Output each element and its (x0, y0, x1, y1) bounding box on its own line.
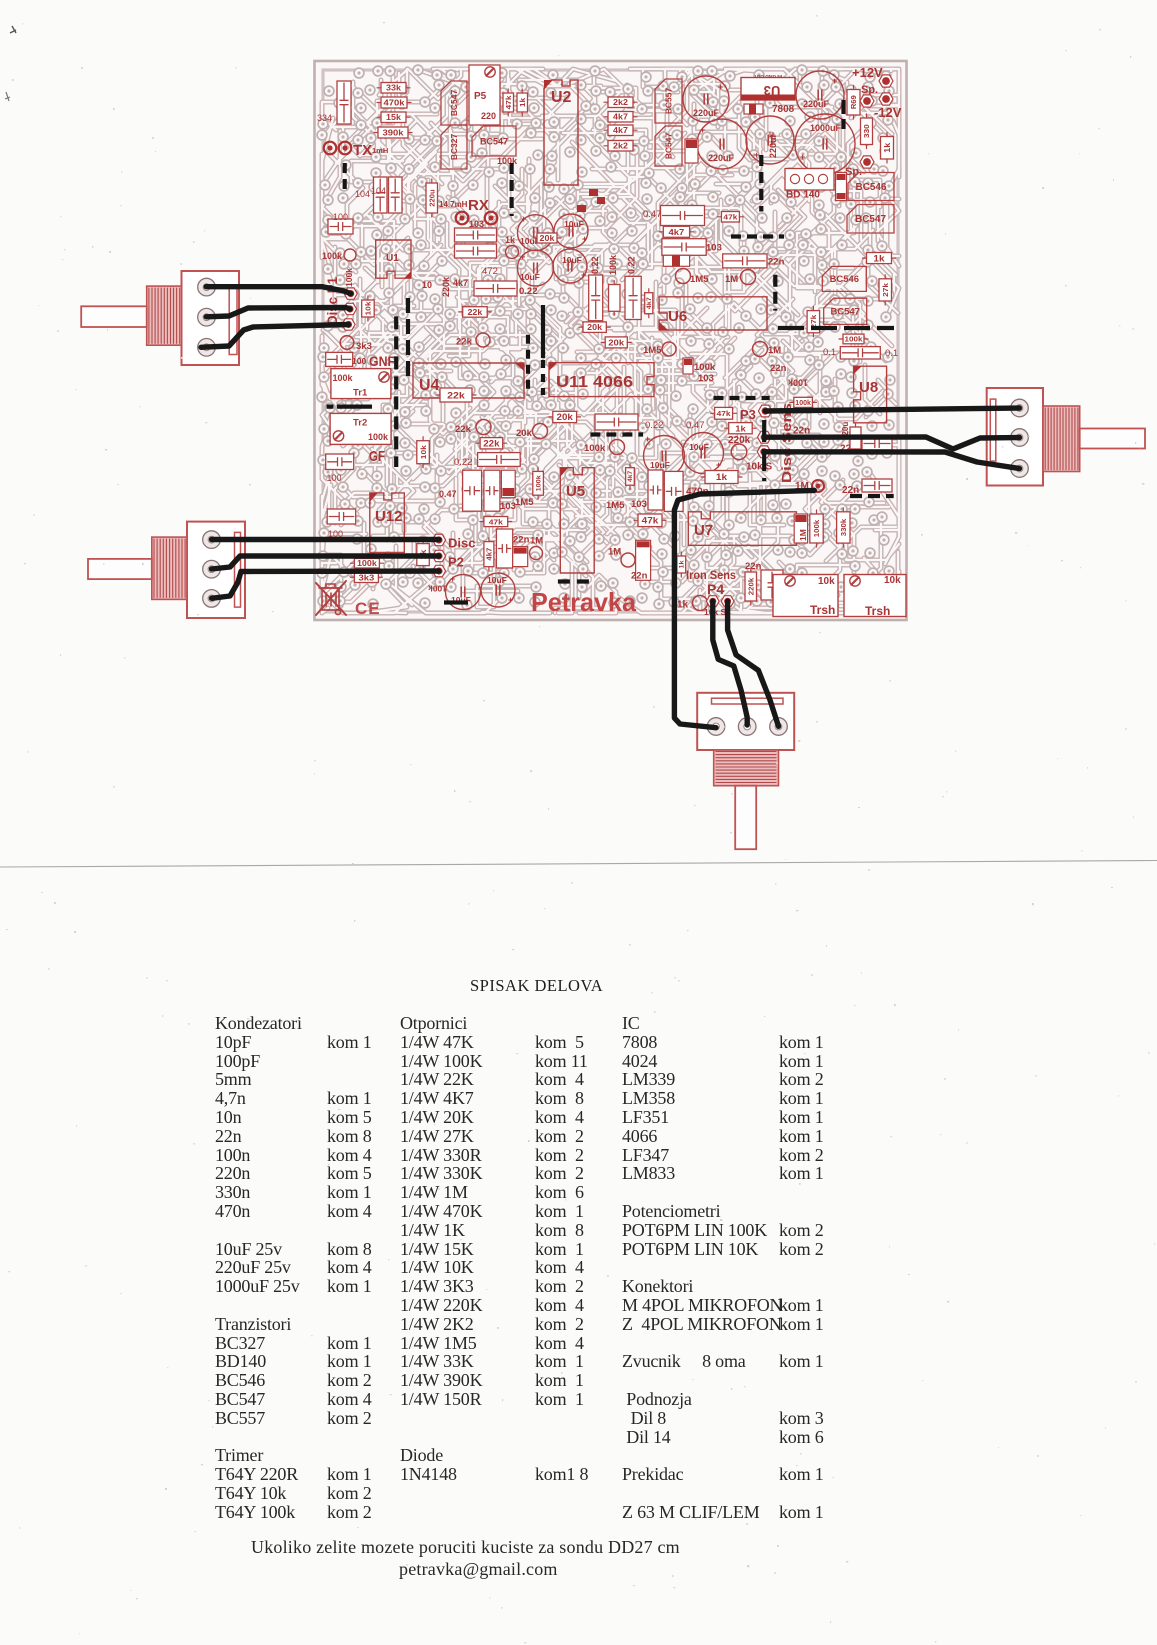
resistor 27k v1 (807, 311, 820, 333)
svg-text:BC547: BC547 (855, 214, 886, 225)
svg-text:Tr2: Tr2 (353, 418, 367, 429)
svg-text:1M5: 1M5 (515, 497, 534, 508)
svg-text:22n: 22n (768, 257, 785, 268)
svg-text:10uF: 10uF (487, 575, 507, 585)
svg-text:100k: 100k (368, 432, 389, 442)
svg-text:472: 472 (482, 266, 498, 277)
capacitor 1000uF (795, 114, 855, 174)
wire dashed v7 (541, 360, 545, 395)
resistor 1M v red (794, 514, 807, 543)
svg-text:4k7: 4k7 (628, 470, 634, 482)
node P4 pads (706, 596, 719, 607)
wire P2-1 (212, 537, 440, 542)
resistor 4k7 vertical (645, 293, 653, 314)
resistor 330 vertical (861, 118, 873, 145)
diode red marks (685, 139, 698, 163)
svg-text:220: 220 (481, 111, 496, 121)
svg-text:15k: 15k (386, 113, 401, 122)
svg-text:0.22: 0.22 (590, 256, 600, 274)
wire dashed h1 (731, 234, 784, 238)
resistor 4k7 u6 (663, 226, 689, 237)
wire solid h7 (327, 405, 373, 409)
svg-text:330k: 330k (841, 519, 848, 536)
resistor 220k vertical P4 (745, 572, 757, 601)
trimmer Trsh 2 (844, 575, 906, 617)
resistor 20k a (583, 322, 606, 333)
svg-text:U11 4066: U11 4066 (556, 374, 633, 391)
svg-text:220uF: 220uF (708, 153, 735, 163)
capacitor v pair left (463, 470, 482, 511)
svg-text:+: + (645, 434, 650, 444)
svg-text:U7: U7 (694, 522, 713, 539)
svg-text:1k: 1k (679, 560, 686, 568)
svg-text:1M: 1M (768, 345, 781, 356)
svg-text:U6: U6 (668, 308, 687, 325)
resistor 4k7 (608, 112, 633, 123)
svg-text:47k: 47k (504, 95, 513, 110)
resistor 100k v (810, 514, 823, 543)
svg-text:22k: 22k (447, 390, 465, 401)
svg-text:47k: 47k (723, 212, 738, 221)
wire dashed v9 (762, 420, 766, 481)
svg-text:220k: 220k (441, 276, 451, 297)
svg-text:BC546: BC546 (830, 274, 859, 285)
resistor 20k b (605, 337, 627, 348)
wire P1-1 (206, 287, 351, 294)
potentiometer P3 (987, 388, 1043, 486)
svg-text:20k: 20k (516, 428, 533, 439)
resistor 47k U5 (484, 517, 508, 527)
resistor R69 (847, 90, 860, 116)
svg-text:4k7: 4k7 (668, 227, 684, 237)
node P2 pads (432, 534, 445, 545)
wire dashed v5 (773, 275, 777, 311)
svg-text:10uF: 10uF (689, 442, 709, 452)
wire dashed v2 (510, 163, 514, 216)
resistor 33k (381, 83, 406, 94)
waste bin symbol (316, 581, 346, 615)
paper speckles (720, 1219, 722, 1221)
svg-text:+: + (716, 460, 721, 470)
node P3 pads (758, 405, 772, 417)
capacitor 100 GNF (326, 352, 353, 366)
diode D1 (744, 104, 763, 114)
svg-text:3k3: 3k3 (356, 341, 372, 352)
svg-text:BC547: BC547 (480, 137, 508, 147)
svg-text:BC327: BC327 (449, 134, 459, 161)
svg-text:Disc P1: Disc P1 (324, 277, 340, 325)
transistor BC547 second (472, 126, 516, 156)
svg-text:330: 330 (862, 124, 871, 138)
wire P4-1 (674, 490, 814, 727)
capacitor 10uF a (518, 215, 554, 251)
svg-text:+: + (508, 595, 513, 605)
resistor 103 red (501, 470, 515, 498)
svg-text:22k: 22k (456, 337, 473, 348)
node TX (324, 142, 337, 155)
svg-text:P5: P5 (474, 91, 487, 102)
transistor BC546 b (822, 266, 866, 291)
svg-text:1M: 1M (530, 536, 543, 547)
svg-text:100k: 100k (344, 268, 354, 287)
svg-text:220uF: 220uF (803, 99, 830, 109)
transistor BD140 (785, 169, 834, 191)
capacitor 220uF C1 (683, 76, 729, 122)
op-amp U2 (544, 80, 578, 185)
transistor BC547 right (847, 205, 894, 234)
svg-text:P3: P3 (740, 407, 756, 422)
capacitor 220uF C4 (746, 116, 794, 164)
resistor 10k vertical (362, 300, 375, 317)
resistor 20k below (553, 411, 577, 422)
resistor 1k vertical (517, 93, 528, 112)
resistor 1k center (705, 471, 738, 484)
resistor 22k d (480, 438, 503, 449)
svg-text:BC547: BC547 (830, 306, 859, 317)
svg-text:47k: 47k (642, 516, 660, 526)
wire dashed v8 (526, 335, 530, 396)
svg-text:GF: GF (369, 449, 385, 465)
pad Sp (860, 95, 874, 107)
trimmer Tr2 (330, 413, 391, 444)
potentiometer P4 (697, 693, 794, 750)
capacitor above u6 (661, 206, 705, 226)
svg-text:390k: 390k (382, 128, 403, 138)
wire dashed h6 (558, 579, 596, 583)
svg-text:100k: 100k (428, 584, 447, 594)
svg-text:1k: 1k (677, 600, 689, 611)
svg-text:334: 334 (317, 113, 332, 123)
wire P3-3 (764, 452, 1020, 469)
capacitor pair (455, 228, 497, 242)
svg-text:10uF: 10uF (562, 255, 582, 265)
svg-text:2k2: 2k2 (613, 98, 628, 107)
resistor 4k7 v (626, 468, 635, 486)
resistor 1k top-right (881, 137, 894, 160)
resistor 100k u8 (843, 334, 864, 344)
svg-text:+: + (718, 82, 723, 92)
svg-text:BD 140: BD 140 (786, 190, 820, 201)
resistor 22k (463, 307, 488, 318)
resistor near BD140 (836, 173, 847, 201)
resistor 47k P3 (715, 407, 733, 419)
capacitor box r2 (862, 437, 892, 450)
resistor 1k vertical P2 (417, 544, 430, 566)
trimmer Trsh 1 (773, 575, 838, 617)
svg-text:Sp.: Sp. (861, 84, 878, 96)
resistor 20k top (537, 233, 557, 243)
capacitor 220k r (850, 427, 861, 449)
svg-text:10k: 10k (884, 575, 901, 586)
resistor 2k2 second (608, 141, 633, 152)
capacitor 104 (374, 177, 388, 213)
capacitor 100 (328, 219, 353, 234)
svg-text:1M: 1M (798, 529, 808, 541)
resistor 1k u8 (867, 253, 892, 264)
wire dashed v11 (406, 298, 410, 380)
wire P4-3 (728, 601, 779, 726)
svg-text:220u: 220u (429, 189, 436, 206)
svg-text:U8: U8 (859, 379, 878, 396)
IC U4 (413, 363, 524, 398)
op-amp U5 (560, 468, 594, 573)
svg-text:103: 103 (706, 243, 722, 254)
svg-text:0.22: 0.22 (454, 457, 473, 468)
resistor red U5 (513, 547, 528, 567)
transistor BC557 (655, 79, 682, 123)
svg-text:100: 100 (333, 212, 348, 222)
wire dashed v1 (343, 163, 347, 190)
svg-text:7808: 7808 (772, 104, 795, 115)
svg-text:103: 103 (631, 499, 647, 510)
svg-text:104: 104 (355, 189, 370, 199)
svg-text:0.47: 0.47 (686, 420, 705, 431)
PCB board outline (315, 61, 907, 620)
svg-text:0.22: 0.22 (627, 256, 637, 274)
wire P1-3 (201, 325, 349, 348)
svg-text:0.1: 0.1 (885, 348, 898, 359)
svg-text:+: + (700, 125, 705, 135)
IC U8 (854, 366, 887, 423)
svg-text:27k: 27k (881, 282, 890, 297)
capacitor 220u vertical (426, 183, 438, 213)
transistor BC547 (441, 81, 467, 125)
wire dashed v4 (841, 100, 845, 129)
resistor 100k (354, 559, 379, 569)
transistor BC547 third (655, 126, 682, 166)
svg-text:BC546: BC546 (856, 182, 887, 193)
wire P1-2 (206, 308, 350, 317)
svg-text:GNF: GNF (369, 354, 395, 369)
svg-text:104: 104 (371, 186, 386, 196)
resistor 22k u4 (440, 388, 472, 402)
svg-text:+: + (521, 214, 526, 224)
svg-text:+: + (800, 152, 805, 162)
svg-text:22n: 22n (631, 571, 648, 582)
svg-text:-12V: -12V (874, 105, 902, 120)
svg-text:U12: U12 (375, 508, 403, 525)
svg-text:14.7mH: 14.7mH (439, 200, 468, 209)
capacitor 10uF d (553, 249, 587, 283)
capacitor 10uF left2 (481, 573, 515, 607)
capacitor box v1 (589, 275, 603, 321)
wire dashed h4 (778, 326, 894, 330)
svg-text:Disc: Disc (448, 536, 475, 551)
capacitor box r3 (862, 479, 892, 492)
pad -12V (879, 93, 893, 105)
transistor BC546 right (848, 173, 894, 201)
svg-text:+: + (520, 252, 525, 262)
svg-text:Tr1: Tr1 (353, 388, 368, 399)
svg-text:U4: U4 (419, 377, 440, 394)
copper traces texture (317, 65, 899, 613)
svg-text:22k: 22k (483, 438, 499, 448)
svg-text:10uF: 10uF (520, 272, 540, 282)
svg-text:20k: 20k (540, 234, 555, 243)
wire dashed h5 (850, 494, 894, 498)
capacitor 10uF left (446, 575, 481, 610)
resistor with red (663, 255, 689, 266)
wire dashed v3 (759, 155, 763, 212)
svg-text:10k S: 10k S (746, 462, 772, 473)
svg-text:U2: U2 (551, 89, 572, 106)
svg-text:TX: TX (353, 142, 372, 159)
trimmer P5 (469, 65, 500, 125)
svg-text:100: 100 (327, 473, 342, 483)
svg-text:BC557: BC557 (664, 88, 674, 115)
svg-text:470k: 470k (383, 98, 404, 108)
svg-text:1000uF: 1000uF (810, 123, 842, 133)
svg-text:1k: 1k (883, 142, 892, 153)
transistor BC547 b (824, 298, 867, 324)
node circle P3 (731, 444, 747, 460)
svg-text:100k: 100k (535, 475, 542, 492)
svg-text:1M5: 1M5 (690, 274, 709, 285)
node 1M mid (753, 342, 768, 357)
svg-text:22k: 22k (455, 424, 472, 435)
svg-text:100k: 100k (357, 559, 377, 568)
svg-text:220k: 220k (748, 578, 755, 595)
resistor 1k vertical b (677, 556, 686, 573)
resistor 2k2 (608, 97, 633, 108)
pad 1M (812, 480, 824, 492)
svg-text:+: + (581, 270, 586, 280)
svg-text:20k: 20k (587, 323, 602, 332)
svg-text:100k: 100k (584, 443, 606, 454)
node P1 pads (344, 288, 357, 299)
svg-text:+: + (832, 76, 837, 86)
svg-text:1k: 1k (873, 253, 885, 263)
svg-text:BC547: BC547 (664, 133, 674, 160)
capacitor 104 second (389, 177, 403, 213)
resistor 1k P3 (729, 423, 753, 434)
wire P4-2 (713, 601, 747, 725)
resistor 100k vertical U5 (533, 471, 544, 495)
resistor 47k u6 (721, 212, 739, 223)
svg-text:4k7: 4k7 (486, 547, 493, 560)
svg-text:100k: 100k (694, 362, 716, 373)
svg-text:Disc Sens: Disc Sens (779, 403, 794, 483)
node 3k3 (340, 336, 354, 350)
svg-text:100k: 100k (333, 373, 354, 383)
pad +12V (879, 75, 893, 87)
svg-text:103: 103 (698, 373, 714, 384)
svg-text:10uF: 10uF (650, 460, 670, 470)
capacitor 470n boxes (648, 470, 663, 510)
svg-text:U5: U5 (566, 483, 585, 500)
capacitor box P4 (761, 570, 783, 600)
svg-text:0.47: 0.47 (643, 209, 662, 220)
svg-text:+12V: +12V (852, 65, 883, 80)
capacitor 100 GF (326, 454, 354, 470)
svg-text:P2: P2 (448, 555, 464, 570)
wire P2-3 (212, 571, 440, 598)
svg-text:1M5: 1M5 (606, 500, 625, 511)
wire dashed v10 (394, 316, 398, 467)
capacitor 10uF c (518, 250, 554, 286)
scan speck top-left (10, 26, 16, 33)
svg-text:10k: 10k (364, 301, 373, 316)
capacitor box v2 (625, 276, 641, 319)
svg-text:+: + (582, 234, 587, 244)
resistor 4k7 second (608, 125, 633, 136)
svg-text:Trsh: Trsh (810, 603, 835, 617)
svg-text:1M: 1M (608, 547, 621, 558)
capacitor 103 u6 (662, 239, 706, 256)
capacitor 0.22 (474, 281, 517, 296)
svg-text:RX: RX (468, 197, 489, 214)
svg-text:100k: 100k (497, 156, 518, 166)
svg-text:R69: R69 (849, 95, 858, 109)
scan tint over board (315, 61, 907, 620)
svg-text:10k: 10k (419, 444, 428, 459)
svg-text:IN GND OUT: IN GND OUT (754, 73, 782, 79)
resistor 390k (378, 127, 408, 138)
wire solid h8 (444, 600, 468, 604)
svg-text:10uF: 10uF (564, 219, 584, 229)
svg-text:Trsh: Trsh (865, 604, 890, 618)
wire P3-1 (765, 408, 1019, 411)
capacitor 334 (337, 81, 351, 124)
svg-text:100k: 100k (814, 520, 821, 537)
resistor 330k v (837, 512, 850, 543)
svg-text:33k: 33k (386, 84, 401, 93)
svg-text:1k: 1k (716, 472, 728, 482)
svg-text:22n: 22n (513, 535, 530, 546)
IC U11 4066 (549, 363, 654, 397)
resistor 3k3 (354, 572, 378, 583)
svg-text:4k7: 4k7 (613, 113, 628, 122)
regulator U3 7808 (741, 78, 795, 101)
resistor 100k rot (794, 397, 813, 407)
resistor 470k (381, 97, 407, 108)
svg-text:0.47: 0.47 (439, 489, 457, 499)
svg-text:100k: 100k (795, 400, 811, 407)
svg-text:1M5: 1M5 (643, 345, 662, 356)
svg-text:47k: 47k (717, 409, 732, 418)
wire solid v6 (541, 305, 545, 358)
resistor 27k v2 (879, 279, 892, 301)
svg-text:CE: CE (355, 599, 381, 618)
op-amp U12 (370, 493, 405, 553)
capacitor vert U5 (496, 529, 512, 568)
svg-text:4k7: 4k7 (613, 126, 628, 135)
svg-text:1k: 1k (518, 97, 527, 107)
resistor 47k U7 (638, 514, 662, 527)
svg-text:BC547: BC547 (449, 90, 459, 117)
svg-text:10k: 10k (818, 576, 835, 587)
wire dashed h3 (714, 396, 770, 400)
svg-text:10: 10 (422, 280, 432, 290)
svg-text:22n: 22n (770, 363, 787, 374)
resistor red b (636, 540, 651, 580)
potentiometer P2 (187, 522, 245, 618)
svg-text:0.22: 0.22 (645, 420, 664, 431)
op-amp U1 (376, 240, 411, 278)
capacitor 0.22 below (595, 414, 638, 430)
svg-text:2k2: 2k2 (613, 142, 628, 151)
capacitor 220uF C3 (697, 119, 747, 169)
op-amp U6 (659, 297, 767, 330)
capacitor 100 U12 (327, 509, 356, 524)
node 1M5 u6 (676, 269, 691, 284)
capacitor 10uF b (554, 214, 588, 248)
resistor 103 u11 (683, 358, 693, 374)
svg-text:1mH: 1mH (372, 146, 388, 155)
resistor 4k7 vertical U5 (484, 542, 494, 567)
svg-text:100k: 100k (787, 378, 808, 388)
capacitor u8 (840, 347, 880, 359)
